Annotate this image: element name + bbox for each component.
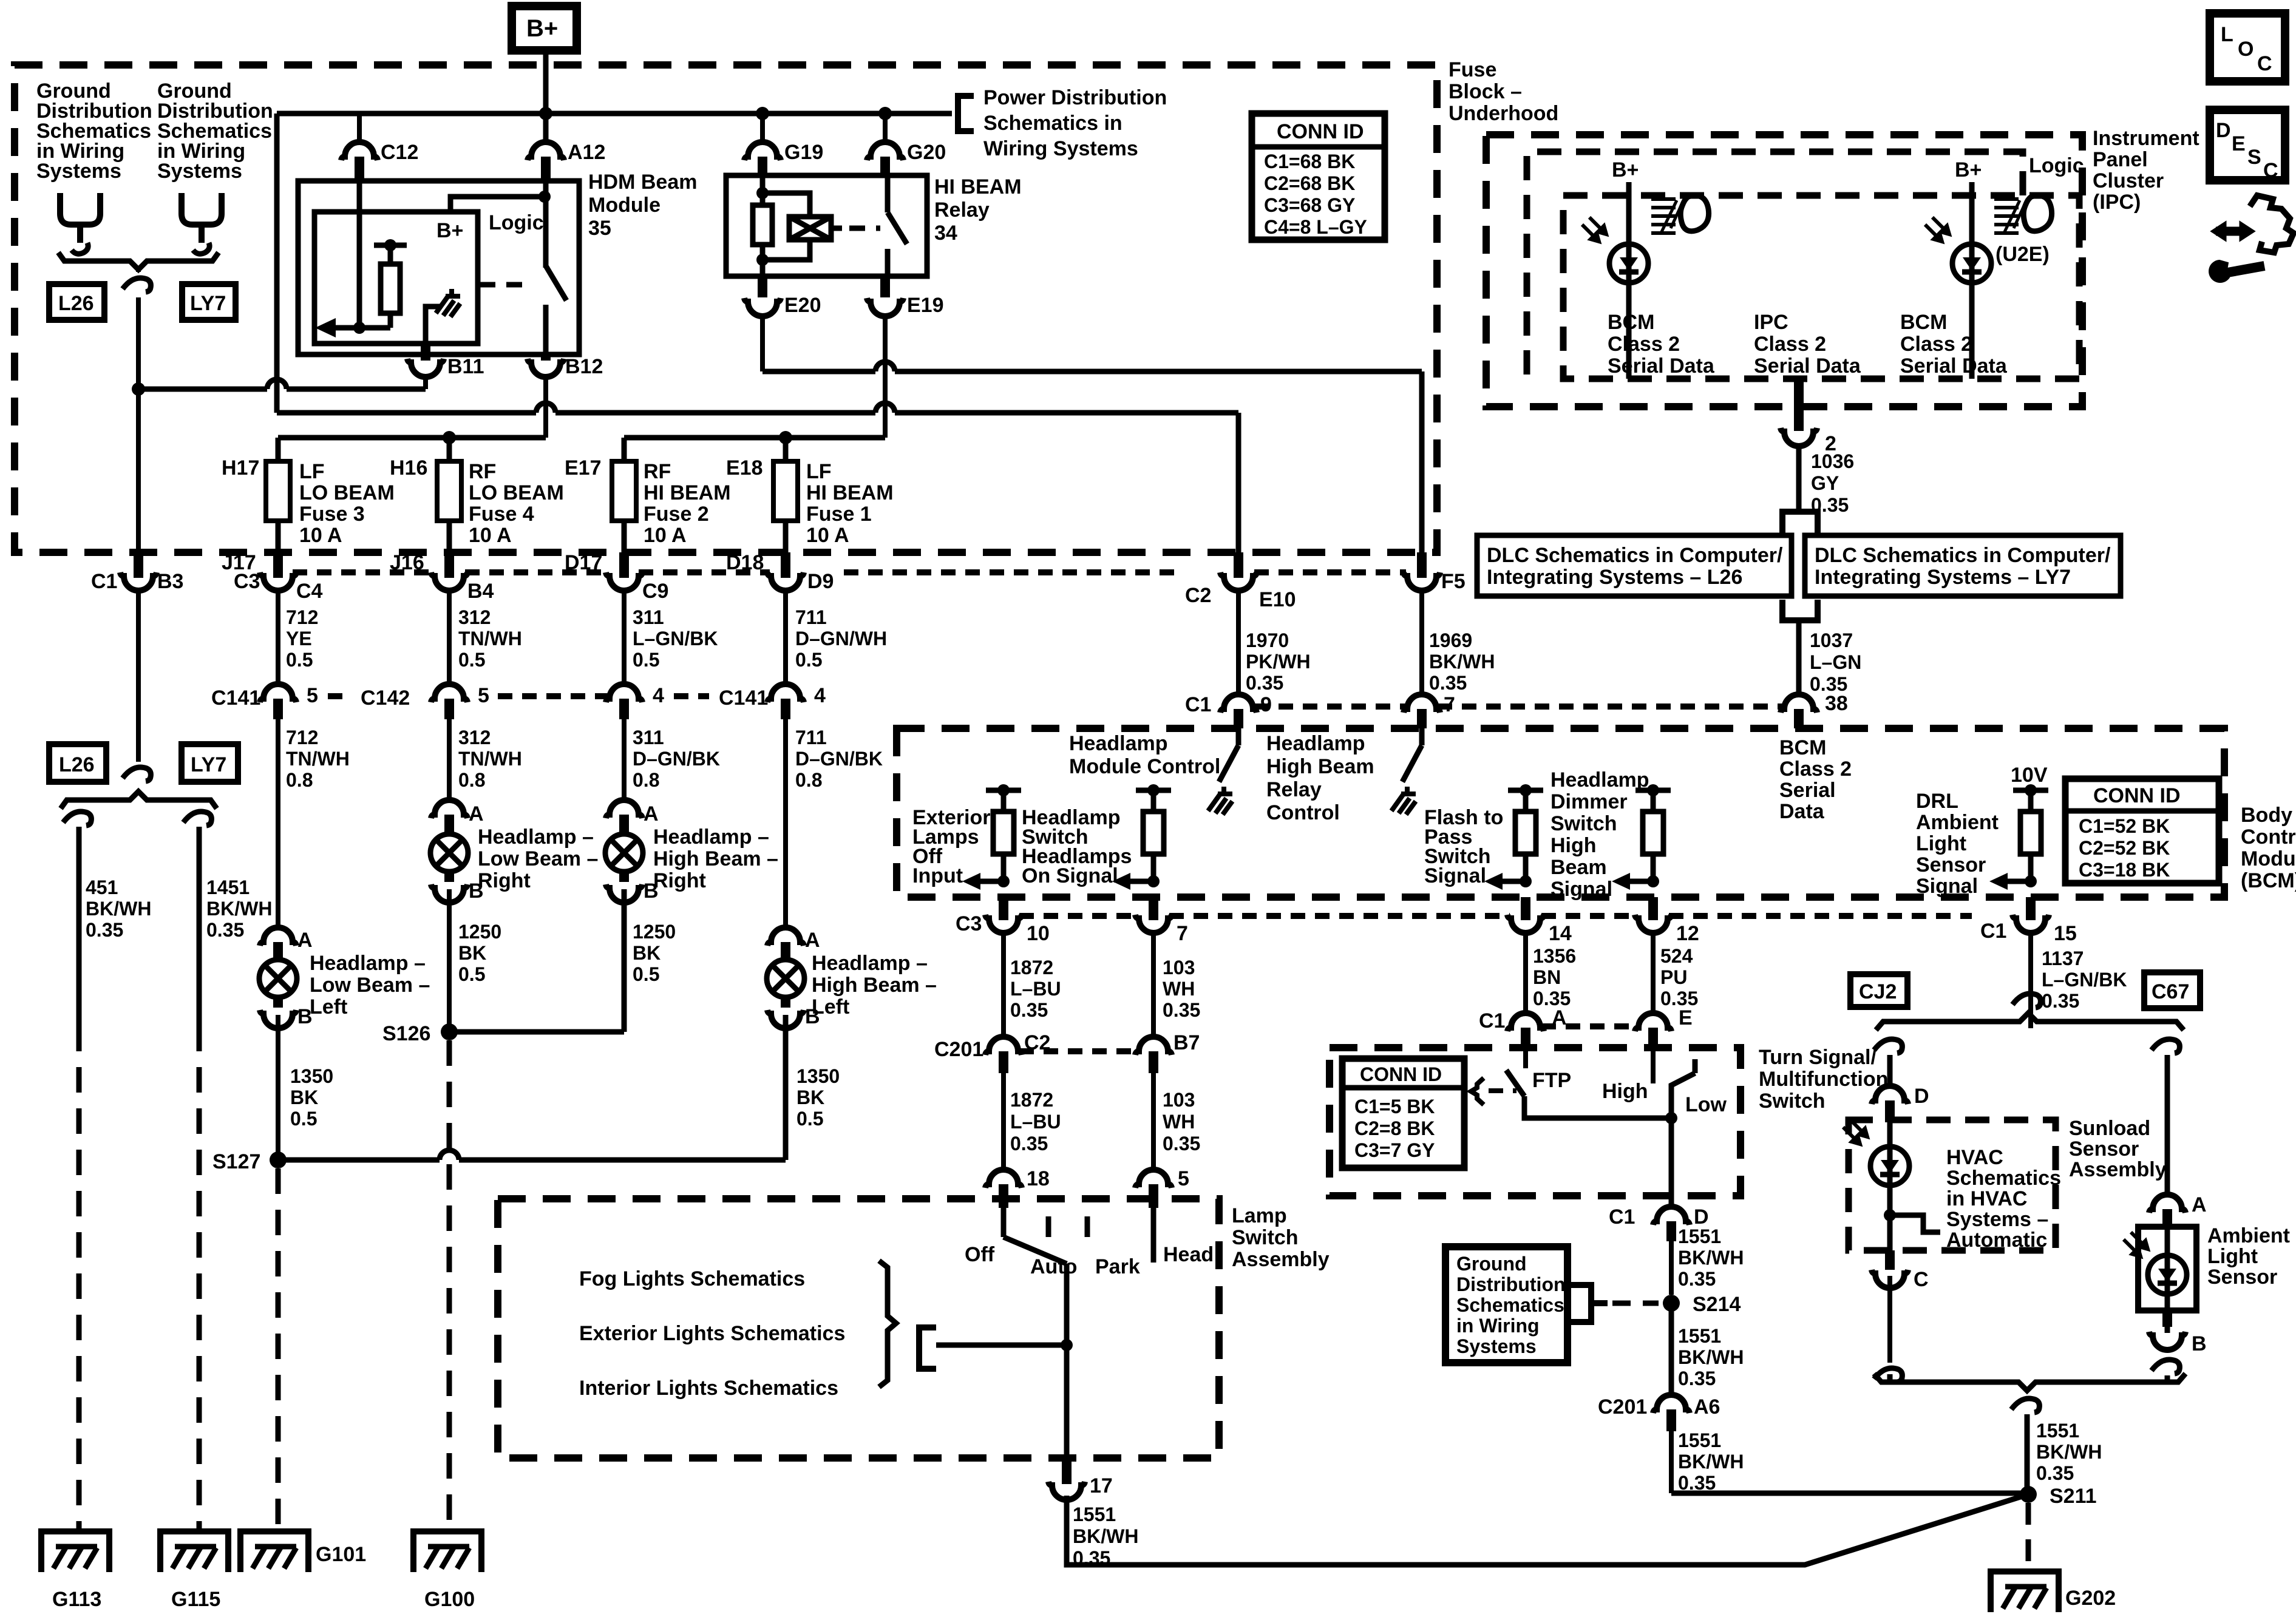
svg-text:Power Distribution: Power Distribution: [983, 86, 1167, 109]
svg-text:C: C: [2257, 52, 2272, 75]
connector row dashed: [328, 693, 709, 699]
svg-text:BK/WH: BK/WH: [1678, 1247, 1744, 1269]
svg-text:7: 7: [1444, 693, 1455, 716]
svg-text:0.35: 0.35: [86, 919, 123, 941]
svg-text:Switch: Switch: [1232, 1226, 1299, 1249]
svg-text:Panel: Panel: [2093, 148, 2148, 171]
resistor DRL ambient: [2013, 790, 2048, 881]
wire 17 to S211: [1067, 1494, 2028, 1565]
photo arrows sunload: [1843, 1120, 1867, 1144]
label HI BEAM Relay 34: [934, 175, 1022, 245]
node at G20: [878, 107, 892, 120]
lamp headlamp low beam right: [430, 834, 468, 872]
svg-text:A: A: [644, 802, 659, 825]
svg-text:E20: E20: [784, 294, 821, 317]
label 1037 L-GN 0.35: [1810, 629, 1861, 695]
label Fuse Block Underhood: [1449, 58, 1558, 125]
wire B+ branch down to H2: [274, 114, 280, 413]
svg-text:C3=68 GY: C3=68 GY: [1264, 194, 1355, 216]
svg-text:Control: Control: [2241, 825, 2296, 849]
connector C201 C2: [985, 1037, 1022, 1055]
connector C201 A6: [1653, 1395, 1690, 1413]
CJ2 box: [1850, 974, 1907, 1007]
BCM dashed box: [897, 728, 2224, 897]
relay coil branch: [763, 193, 810, 260]
HDM inner B+ module box: [314, 212, 478, 344]
label 312 TN/WH 0.5: [458, 606, 522, 671]
LOC box: [2210, 13, 2285, 81]
svg-text:C3=7 GY: C3=7 GY: [1354, 1139, 1435, 1161]
connector C142 5: [431, 684, 467, 702]
indicator wire left: [1626, 182, 1632, 379]
HI BEAM relay box: [726, 175, 927, 276]
connector B12: [541, 354, 551, 361]
inline connector below brace: [2011, 1398, 2039, 1412]
lamp switch assembly dashed box: [498, 1199, 1219, 1458]
svg-text:Relay: Relay: [934, 198, 990, 222]
svg-text:524: 524: [1660, 945, 1693, 967]
svg-text:A6: A6: [1694, 1395, 1720, 1419]
hop over B12 wire: [536, 403, 555, 413]
label 711 D-GN/WH 0.5: [795, 606, 887, 671]
connector G19: [744, 142, 781, 160]
FTP switch blade: [1506, 1070, 1524, 1096]
B+ power box: [512, 6, 577, 50]
sunload photodiode: [1870, 1147, 1909, 1185]
brace gathering grounds: [58, 253, 219, 269]
svg-text:C1: C1: [1609, 1205, 1635, 1229]
connector row dashed: [1019, 1048, 1138, 1054]
svg-text:D–GN/WH: D–GN/WH: [795, 628, 887, 649]
svg-text:0.35: 0.35: [2042, 990, 2079, 1012]
label 711 D-GN/BK 0.8: [795, 727, 883, 791]
svg-text:14: 14: [1549, 922, 1572, 945]
svg-text:0.5: 0.5: [633, 649, 659, 671]
connector 38: [1781, 694, 1817, 713]
svg-text:B11: B11: [447, 355, 484, 378]
svg-text:0.35: 0.35: [1678, 1368, 1716, 1389]
svg-text:F5: F5: [1441, 570, 1466, 593]
DLC schematics box LY7: [1805, 535, 2121, 596]
svg-text:Integrating Systems – L26: Integrating Systems – L26: [1487, 566, 1742, 589]
common wire: [1064, 1264, 1070, 1458]
svg-text:L–GN/BK: L–GN/BK: [633, 628, 718, 649]
svg-text:C67: C67: [2152, 980, 2189, 1003]
svg-text:A: A: [297, 929, 313, 952]
svg-text:High Beam: High Beam: [1266, 755, 1374, 778]
svg-text:712: 712: [286, 606, 318, 628]
label 1250 BK 0.5 right high: [633, 921, 676, 985]
label BCM class 2 serial data BCM: [1779, 736, 1852, 823]
svg-text:Fuse 4: Fuse 4: [469, 503, 534, 526]
svg-text:Sensor: Sensor: [1916, 853, 1986, 876]
svg-text:D–GN/BK: D–GN/BK: [795, 748, 883, 770]
svg-text:Module Control: Module Control: [1069, 755, 1220, 778]
svg-text:E: E: [1679, 1006, 1693, 1029]
svg-text:L–GN: L–GN: [1810, 651, 1861, 673]
svg-text:(IPC): (IPC): [2093, 191, 2141, 214]
svg-text:A: A: [805, 929, 820, 952]
HDM output switch blade: [546, 266, 566, 300]
wire down into fuse 1: [783, 438, 789, 463]
dashed ground wire S127 to G101: [276, 1168, 281, 1531]
label 1551 BK/WH 0.35 third: [1678, 1429, 1744, 1494]
svg-text:Light: Light: [2207, 1245, 2258, 1268]
svg-text:Class 2: Class 2: [1900, 333, 1972, 356]
svg-text:B: B: [2192, 1332, 2207, 1355]
svg-text:E17: E17: [565, 456, 602, 480]
svg-text:1551: 1551: [1073, 1503, 1116, 1525]
svg-text:H17: H17: [222, 456, 259, 480]
wire down into fuse 2: [622, 438, 627, 463]
svg-text:BCM: BCM: [1900, 311, 1947, 334]
ground relay control: [1391, 787, 1416, 815]
svg-text:BK: BK: [633, 942, 661, 964]
connector E19: [880, 276, 890, 297]
connector A low beam left: [260, 927, 296, 946]
HDM beam module box: [298, 181, 579, 354]
svg-text:G115: G115: [171, 1588, 220, 1611]
connector C141 4 (D9 column): [767, 684, 804, 702]
svg-text:0.35: 0.35: [1678, 1268, 1716, 1290]
inline connector ambient branch: [2152, 1039, 2179, 1053]
sense resistor branch: [330, 245, 390, 328]
inline connector on ground wire: [123, 278, 151, 292]
svg-text:Lamp: Lamp: [1232, 1204, 1287, 1227]
svg-text:BK: BK: [796, 1086, 824, 1108]
label headlamp high beam right: [653, 825, 778, 892]
label body control module: [2241, 804, 2296, 892]
svg-text:B+: B+: [526, 15, 558, 42]
svg-text:312: 312: [458, 606, 491, 628]
connector A low beam right: [431, 800, 467, 818]
connector C1 D: [1669, 1196, 1674, 1207]
label 1551 BK/WH 0.35 sensors: [2036, 1420, 2102, 1484]
resistor HDM: [381, 264, 400, 313]
svg-text:WH: WH: [1163, 978, 1195, 1000]
node fuse 1 feed: [779, 431, 792, 444]
svg-text:C3: C3: [956, 912, 982, 935]
svg-text:O: O: [2238, 38, 2254, 61]
node C12 sense: [353, 322, 365, 334]
label lamp switch assembly: [1232, 1204, 1330, 1271]
svg-text:Exterior Lights Schematics: Exterior Lights Schematics: [579, 1322, 845, 1345]
connector C3 10: [999, 897, 1008, 920]
connector row dashed line: [293, 569, 1406, 575]
svg-text:B+: B+: [436, 219, 463, 242]
connector 2: [1794, 379, 1804, 431]
svg-text:Fog Lights Schematics: Fog Lights Schematics: [579, 1267, 805, 1290]
label 524 PU 0.35: [1660, 945, 1698, 1009]
label 311 L-GN/BK 0.5: [633, 606, 718, 671]
svg-text:Park: Park: [1095, 1255, 1140, 1278]
resistor exterior lamps off: [986, 790, 1021, 881]
svg-text:Module: Module: [2241, 847, 2296, 870]
svg-text:S214: S214: [1693, 1293, 1741, 1316]
connector C1 A: [1507, 1013, 1544, 1031]
label 1969 BK/WH 0.35: [1429, 629, 1495, 694]
park contact tick: [1085, 1216, 1090, 1237]
wire to ambient A: [2165, 1055, 2170, 1195]
label exterior lamps off input: [912, 806, 991, 887]
svg-text:311: 311: [633, 606, 664, 628]
ground G113: [41, 1531, 109, 1572]
HDM switch lower wire: [543, 305, 549, 354]
indicator wire right: [1969, 182, 1975, 379]
H2 wire B+ to E10 column with hops: [277, 410, 1238, 416]
label 1872 L-BU 0.35 lower: [1010, 1089, 1061, 1154]
svg-text:Distribution: Distribution: [1456, 1273, 1566, 1295]
svg-text:Schematics: Schematics: [1946, 1167, 2061, 1190]
splice S126: [441, 1023, 458, 1040]
power distribution bracket: [958, 96, 974, 131]
label headlamp high beam left: [812, 952, 937, 1019]
svg-text:Class 2: Class 2: [1779, 758, 1852, 781]
svg-text:S211: S211: [2050, 1485, 2097, 1508]
connector row dashed: [1019, 913, 1972, 919]
label 1551 BK/WH 0.35 first: [1678, 1225, 1744, 1290]
connector 12: [1648, 897, 1658, 920]
ground G100: [413, 1531, 481, 1572]
label 712 YE 0.5: [286, 606, 318, 671]
inline connector right branch: [183, 812, 211, 825]
FTP mechanical link: [1471, 1078, 1484, 1105]
TSM connector row dashed: [1541, 1023, 1637, 1029]
svg-text:LO BEAM: LO BEAM: [469, 481, 564, 504]
svg-text:CONN ID: CONN ID: [1360, 1063, 1442, 1085]
svg-text:Systems: Systems: [157, 160, 242, 183]
svg-text:Switch: Switch: [1550, 812, 1617, 835]
label 1250 BK 0.5 right low: [458, 921, 501, 985]
svg-text:Body: Body: [2241, 804, 2292, 827]
svg-text:Sensor: Sensor: [2069, 1137, 2139, 1161]
conn id box fuse block: [1252, 114, 1385, 240]
svg-text:1551: 1551: [1678, 1429, 1721, 1451]
svg-text:BCM: BCM: [1779, 736, 1826, 759]
horizontal B+ distribution wire: [277, 111, 952, 117]
svg-text:BN: BN: [1533, 966, 1561, 988]
svg-text:Sensor: Sensor: [2207, 1266, 2277, 1289]
svg-text:RF: RF: [469, 460, 496, 483]
svg-text:C142: C142: [361, 686, 410, 710]
svg-text:HI BEAM: HI BEAM: [806, 481, 894, 504]
conn id box BCM: [2065, 779, 2219, 883]
wire from brace down to C1 B3: [136, 271, 141, 568]
dashed wire to G202: [2026, 1503, 2031, 1571]
svg-text:35: 35: [588, 217, 611, 240]
svg-text:Low Beam –: Low Beam –: [478, 847, 598, 870]
svg-text:C2: C2: [1185, 584, 1211, 607]
svg-text:L26: L26: [58, 292, 94, 315]
connector B11: [421, 344, 430, 361]
svg-text:Fuse 3: Fuse 3: [299, 503, 365, 526]
svg-text:D: D: [1914, 1085, 1929, 1108]
svg-text:10 A: 10 A: [469, 524, 512, 547]
svg-text:711: 711: [795, 606, 827, 628]
svg-text:D9: D9: [807, 570, 834, 593]
svg-text:Interior Lights Schematics: Interior Lights Schematics: [579, 1377, 838, 1400]
svg-text:C9: C9: [642, 580, 668, 603]
label BCM class 2 serial data right: [1900, 311, 2008, 378]
svg-text:in HVAC: in HVAC: [1946, 1187, 2027, 1210]
label headlamp dimmer switch high beam signal: [1550, 768, 1649, 901]
relay control switch: [1402, 728, 1422, 782]
label 1036 GY 0.35: [1811, 450, 1854, 516]
svg-text:Assembly: Assembly: [2069, 1158, 2167, 1181]
LED dashed box: [1563, 195, 2079, 379]
coil linkage stub: [831, 226, 842, 231]
svg-text:Low: Low: [1685, 1093, 1727, 1116]
L26 box: [49, 284, 104, 320]
B12 output wire to fuses 3 and 4: [278, 435, 546, 441]
svg-text:0.35: 0.35: [2036, 1462, 2074, 1484]
connector A high beam left: [767, 927, 804, 946]
svg-text:C1=52 BK: C1=52 BK: [2079, 815, 2170, 837]
svg-text:Switch: Switch: [1759, 1090, 1826, 1113]
arrow exterior lamps off input: [977, 879, 1004, 884]
label 1350 BK 0.5 left low: [290, 1065, 333, 1130]
connector E20: [758, 276, 767, 297]
connector 17: [1062, 1458, 1072, 1484]
svg-text:10 A: 10 A: [644, 524, 687, 547]
splice junction with B11 line: [132, 382, 145, 396]
svg-text:G113: G113: [52, 1588, 101, 1611]
svg-text:HI BEAM: HI BEAM: [644, 481, 731, 504]
svg-text:Headlamp –: Headlamp –: [310, 952, 426, 975]
connector B high beam right: [606, 884, 642, 903]
svg-text:0.8: 0.8: [286, 769, 313, 791]
svg-text:10: 10: [1027, 922, 1050, 945]
S126 ground bus wire: [449, 889, 624, 1032]
svg-text:C201: C201: [934, 1038, 983, 1061]
logic feed wire from A12: [450, 181, 546, 268]
svg-text:7: 7: [1177, 922, 1188, 945]
svg-text:0.8: 0.8: [633, 769, 659, 791]
svg-text:0.35: 0.35: [1163, 999, 1200, 1021]
svg-text:Serial: Serial: [1779, 779, 1836, 802]
svg-text:712: 712: [286, 727, 318, 748]
svg-text:0.5: 0.5: [458, 649, 485, 671]
svg-text:Headlamp: Headlamp: [1069, 732, 1168, 755]
hop over B+ branch: [267, 379, 287, 389]
svg-text:Fuse 1: Fuse 1: [806, 503, 872, 526]
inline connector below B: [2152, 1360, 2179, 1374]
svg-text:Headlamp –: Headlamp –: [812, 952, 928, 975]
label ambient light sensor: [2207, 1224, 2290, 1289]
svg-text:CONN ID: CONN ID: [2093, 784, 2181, 807]
connector C1 B3: [134, 552, 143, 578]
connector B low beam left: [260, 1010, 296, 1028]
svg-text:PU: PU: [1660, 966, 1687, 988]
svg-text:C1: C1: [1980, 920, 2006, 943]
svg-text:0.35: 0.35: [206, 919, 244, 941]
svg-text:0.5: 0.5: [286, 649, 313, 671]
hop over E19 wire: [875, 403, 895, 413]
svg-text:BK/WH: BK/WH: [1678, 1451, 1744, 1473]
svg-text:BK/WH: BK/WH: [1678, 1346, 1744, 1368]
S127 ground bus wire with hop: [278, 1015, 786, 1160]
svg-text:C141: C141: [719, 686, 768, 710]
photo arrows left: [1582, 217, 1606, 242]
svg-text:TN/WH: TN/WH: [458, 628, 522, 649]
auto contact tick: [1046, 1216, 1051, 1237]
svg-text:Automatic: Automatic: [1946, 1229, 2047, 1252]
navigation icon arrow car wrench: [2209, 195, 2294, 282]
arrow headlamps on signal: [1127, 879, 1153, 884]
svg-text:Systems: Systems: [1456, 1335, 1537, 1357]
svg-text:Serial Data: Serial Data: [1754, 354, 1861, 378]
node at B+: [539, 107, 552, 120]
hop over E19 wire: [875, 362, 895, 371]
wire down to S211: [2025, 1414, 2030, 1494]
lamp headlamp high beam left: [767, 960, 804, 997]
svg-text:9: 9: [1260, 693, 1272, 716]
svg-text:Ground: Ground: [1456, 1253, 1527, 1275]
svg-text:C12: C12: [381, 141, 418, 164]
ground reference symbol right: [182, 193, 222, 254]
svg-text:5: 5: [307, 684, 318, 707]
svg-text:WH: WH: [1163, 1111, 1195, 1133]
svg-text:B4: B4: [467, 580, 494, 603]
connector C2 E10: [1234, 552, 1243, 578]
svg-text:1970: 1970: [1246, 629, 1289, 651]
svg-text:B7: B7: [1173, 1031, 1200, 1054]
IPC outer dashed box: [1486, 135, 2082, 407]
sunload sensor dashed box: [1849, 1120, 2056, 1250]
E19 output wire to hi beam fuses: [624, 435, 885, 441]
connector G20: [867, 142, 903, 160]
connector C9: [619, 552, 629, 578]
svg-text:LY7: LY7: [191, 753, 226, 776]
svg-text:RF: RF: [644, 460, 671, 483]
svg-text:Integrating Systems – LY7: Integrating Systems – LY7: [1815, 566, 2071, 589]
svg-text:Off: Off: [965, 1243, 995, 1266]
off wire: [1001, 1208, 1007, 1237]
wire to C1 D: [1669, 1118, 1674, 1205]
svg-text:C2=52 BK: C2=52 BK: [2079, 837, 2170, 859]
svg-text:0.35: 0.35: [1010, 999, 1048, 1021]
fuse 1 LF HI BEAM: [773, 461, 798, 521]
svg-text:LF: LF: [299, 460, 325, 483]
svg-text:S126: S126: [382, 1022, 430, 1045]
svg-text:Instrument: Instrument: [2093, 127, 2199, 150]
fuse 4 RF LO BEAM: [437, 461, 461, 521]
wire 1037: [1796, 620, 1802, 694]
wire stubs into bottom brace: [1890, 1374, 2167, 1382]
svg-text:Systems: Systems: [36, 160, 121, 183]
svg-text:E18: E18: [726, 456, 763, 480]
svg-text:0.35: 0.35: [1246, 672, 1283, 694]
low contact stub: [1693, 1059, 1698, 1073]
label HDM Beam Module 35: [588, 171, 697, 240]
label 712 TN/WH 0.8: [286, 727, 350, 791]
svg-text:18: 18: [1027, 1167, 1050, 1190]
svg-text:Light: Light: [1916, 832, 1966, 855]
svg-text:DRL: DRL: [1916, 790, 1958, 813]
svg-text:HI BEAM: HI BEAM: [934, 175, 1022, 198]
wire 1036: [1796, 443, 1802, 512]
ambient wire: [2165, 1229, 2170, 1333]
svg-text:C4: C4: [296, 580, 323, 603]
headlamp beam icon right: [1994, 195, 2052, 233]
svg-text:15: 15: [2054, 922, 2077, 945]
T bar supply: [374, 243, 407, 248]
svg-text:17: 17: [1090, 1474, 1113, 1497]
svg-text:Right: Right: [653, 869, 706, 892]
ground G115: [160, 1531, 228, 1572]
label headlamp high beam relay control: [1266, 732, 1374, 824]
svg-text:B+: B+: [1955, 158, 1982, 181]
